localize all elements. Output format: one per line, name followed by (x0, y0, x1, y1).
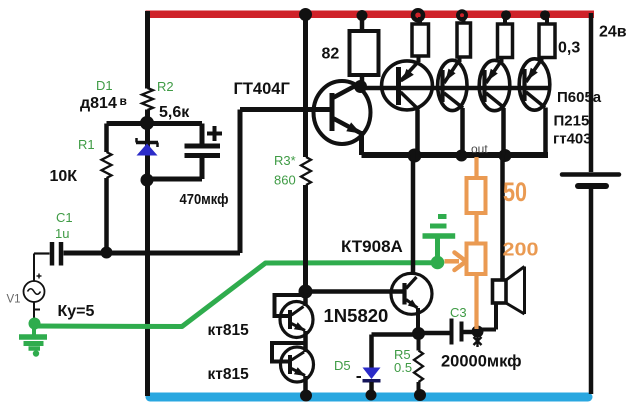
svg-text:в: в (120, 94, 127, 108)
svg-text:D1: D1 (96, 78, 113, 93)
svg-text:10К: 10К (50, 168, 78, 185)
svg-text:200: 200 (503, 239, 539, 260)
svg-text:1N5820: 1N5820 (324, 305, 389, 326)
svg-text:д814: д814 (80, 95, 117, 112)
svg-text:82: 82 (322, 46, 340, 63)
svg-text:V1: V1 (7, 294, 21, 306)
svg-text:C1: C1 (56, 210, 73, 225)
svg-text:Ку=5: Ку=5 (58, 303, 95, 320)
svg-text:C3: C3 (450, 305, 467, 320)
svg-text:П605а: П605а (557, 89, 602, 106)
svg-text:гт403: гт403 (553, 131, 592, 148)
svg-text:1u: 1u (55, 226, 69, 241)
svg-text:кт815: кт815 (208, 366, 250, 383)
svg-text:out: out (471, 142, 488, 156)
svg-text:R2: R2 (157, 79, 174, 94)
svg-text:R3*: R3* (274, 153, 296, 168)
svg-text:24в: 24в (599, 24, 627, 41)
svg-text:R1: R1 (78, 137, 95, 152)
svg-text:КТ908А: КТ908А (341, 237, 403, 256)
svg-text:0.5: 0.5 (394, 360, 412, 375)
svg-text:П215: П215 (554, 113, 590, 130)
svg-text:D5: D5 (334, 358, 351, 373)
svg-text:5,6к: 5,6к (159, 104, 190, 121)
svg-text:ГТ404Г: ГТ404Г (234, 80, 291, 98)
svg-text:470мкф: 470мкф (180, 191, 229, 208)
svg-text:кт815: кт815 (208, 322, 250, 339)
svg-text:20000мкф: 20000мкф (441, 353, 522, 371)
svg-text:50: 50 (503, 177, 527, 207)
svg-text:860: 860 (274, 173, 296, 188)
svg-text:0,3: 0,3 (558, 40, 580, 57)
